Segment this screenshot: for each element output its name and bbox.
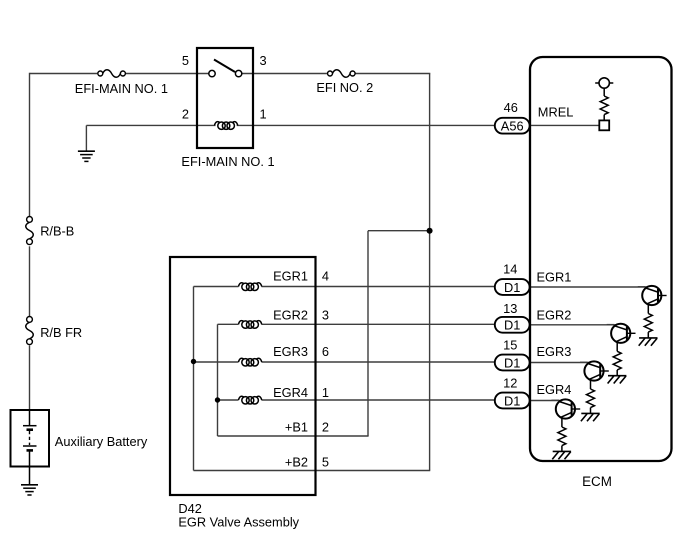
svg-text:6: 6 — [322, 344, 329, 359]
svg-text:EGR2: EGR2 — [273, 308, 308, 323]
svg-text:13: 13 — [503, 301, 517, 316]
svg-text:EGR3: EGR3 — [273, 344, 308, 359]
svg-text:Auxiliary Battery: Auxiliary Battery — [55, 434, 148, 449]
svg-text:3: 3 — [322, 308, 329, 323]
svg-text:D1: D1 — [504, 355, 520, 370]
svg-text:EGR1: EGR1 — [273, 269, 308, 284]
svg-text:EGR3: EGR3 — [537, 344, 572, 359]
svg-text:EFI-MAIN NO. 1: EFI-MAIN NO. 1 — [181, 154, 274, 169]
svg-text:EFI-MAIN NO. 1: EFI-MAIN NO. 1 — [75, 81, 168, 96]
svg-text:D1: D1 — [504, 393, 520, 408]
svg-text:+B1: +B1 — [285, 419, 308, 434]
svg-text:EGR Valve Assembly: EGR Valve Assembly — [178, 514, 299, 529]
svg-text:EGR4: EGR4 — [273, 385, 308, 400]
svg-text:1: 1 — [260, 107, 267, 122]
svg-text:+B2: +B2 — [285, 455, 308, 470]
svg-text:2: 2 — [182, 107, 189, 122]
svg-text:14: 14 — [503, 261, 517, 276]
svg-text:12: 12 — [503, 375, 517, 390]
svg-text:R/B FR: R/B FR — [40, 325, 82, 340]
svg-text:3: 3 — [260, 53, 267, 68]
svg-text:EGR1: EGR1 — [537, 269, 572, 284]
svg-text:1: 1 — [322, 385, 329, 400]
svg-text:EGR2: EGR2 — [537, 307, 572, 322]
svg-text:EFI NO. 2: EFI NO. 2 — [316, 80, 373, 95]
svg-text:ECM: ECM — [582, 474, 612, 489]
svg-text:15: 15 — [503, 338, 517, 353]
svg-text:5: 5 — [182, 53, 189, 68]
svg-text:R/B-B: R/B-B — [40, 224, 74, 239]
svg-text:46: 46 — [504, 100, 518, 115]
svg-text:A56: A56 — [501, 119, 524, 134]
svg-text:EGR4: EGR4 — [537, 382, 572, 397]
svg-text:MREL: MREL — [538, 105, 574, 120]
svg-text:D1: D1 — [504, 280, 520, 295]
svg-text:5: 5 — [322, 455, 329, 470]
svg-text:D1: D1 — [504, 318, 520, 333]
svg-text:2: 2 — [322, 419, 329, 434]
svg-text:4: 4 — [322, 269, 329, 284]
